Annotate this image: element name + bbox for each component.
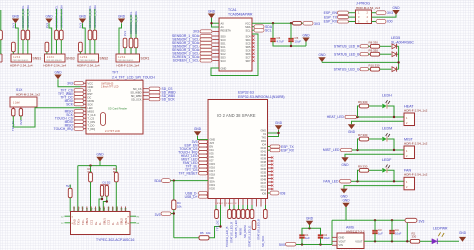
svg-text:T_CLK: T_CLK — [88, 113, 96, 117]
node SD_WB0 — [162, 94, 176, 98]
pin — [268, 160, 272, 162]
wire — [103, 196, 107, 211]
label R4 10k — [177, 201, 182, 208]
svg-text:R6 330: R6 330 — [358, 100, 368, 104]
node STATUS_LED_G — [334, 67, 360, 71]
no-connect — [271, 188, 273, 190]
pin name D+ — [115, 221, 119, 225]
svg-text:GND: GND — [392, 6, 400, 10]
svg-text:SD7: SD7 — [245, 59, 251, 63]
pin number A6 — [99, 207, 102, 211]
node 5V0 — [279, 243, 285, 247]
no-connect — [252, 39, 254, 41]
wire — [229, 205, 231, 210]
pin 2 — [367, 11, 369, 15]
pin name CS — [88, 88, 92, 92]
capacitor C5 — [288, 39, 293, 41]
pin 4 — [367, 15, 369, 19]
label flag TOUCH_CS — [199, 147, 208, 150]
svg-text:T_DO: T_DO — [88, 123, 95, 127]
pin name GND — [221, 66, 227, 70]
node SNS1 — [33, 57, 42, 61]
pin — [247, 199, 249, 206]
pin — [213, 30, 220, 32]
svg-text:RESETA: RESETA — [221, 29, 231, 33]
svg-text:HDR-F-2.54_1x4: HDR-F-2.54_1x4 — [77, 64, 100, 68]
junction — [173, 179, 175, 181]
pin name VOUT — [339, 239, 347, 243]
wire — [22, 9, 24, 30]
label flag 3V3 — [376, 11, 386, 15]
wire up — [358, 170, 360, 181]
label HDR-F-2.54_1x2 — [404, 141, 428, 145]
no-connect — [252, 35, 254, 37]
label flag IO0 — [376, 20, 386, 24]
wire — [94, 40, 96, 54]
pin name SD2 — [221, 48, 227, 52]
wire — [215, 205, 217, 210]
wire — [369, 53, 371, 55]
node ESP_EN — [324, 11, 338, 15]
pin T_DIN — [81, 121, 87, 123]
pin — [103, 207, 105, 212]
wire input top rail — [302, 228, 321, 235]
no-connect — [271, 160, 273, 162]
pin — [215, 199, 217, 206]
svg-text:GND: GND — [342, 199, 350, 203]
svg-text:SDA: SDA — [245, 25, 251, 29]
svg-text:4.7uF: 4.7uF — [277, 40, 285, 44]
pin name SC1 — [221, 45, 227, 49]
pin — [116, 207, 118, 212]
label flag SD_WBD — [149, 91, 160, 94]
label R9 — [358, 164, 368, 168]
wire — [380, 68, 392, 70]
label flag SD_SCK — [149, 98, 160, 101]
label TCA9548APWR — [228, 13, 253, 17]
IC TFT module body — [86, 80, 143, 134]
label flag MISO — [74, 124, 84, 127]
ground pwr — [459, 237, 466, 242]
capacitor C4 — [389, 231, 394, 233]
svg-text:3V3: 3V3 — [419, 220, 425, 224]
svg-text:SD Card Reader: SD Card Reader — [108, 107, 127, 111]
label flag STATUS_LED_B — [360, 53, 369, 56]
node TOUCH_LED_B — [225, 227, 229, 247]
svg-text:USB_D+: USB_D+ — [185, 195, 198, 199]
label flag SENSOR_2_SCL — [200, 45, 212, 48]
svg-text:SC6: SC6 — [245, 48, 251, 52]
pin — [120, 207, 122, 212]
pin name GND — [72, 219, 76, 225]
label flag HEAT_LED — [199, 154, 208, 157]
junction — [89, 164, 91, 166]
label flag 3V3 — [74, 82, 84, 85]
svg-text:B12: B12 — [108, 206, 111, 211]
resistor R7 — [359, 137, 368, 141]
svg-text:3V3: 3V3 — [79, 23, 83, 29]
svg-text:SCL: SCL — [245, 29, 251, 33]
capacitor C3 — [372, 231, 377, 233]
wire — [69, 198, 71, 212]
label R10 330 — [369, 64, 380, 68]
pin SD_SCK — [143, 98, 149, 100]
wire — [369, 105, 382, 107]
resistor SNS1a — [21, 30, 25, 40]
wire pin1 — [358, 116, 405, 118]
svg-text:TOUCH_LED_B: TOUCH_LED_B — [225, 227, 229, 247]
label HEAT — [404, 104, 414, 108]
svg-text:CS: CS — [88, 88, 92, 92]
label C6 4.7uF — [277, 36, 285, 43]
pin number A9 — [86, 207, 89, 211]
node FAN_LED — [323, 180, 339, 184]
svg-text:CC2: CC2 — [107, 219, 111, 225]
svg-text:PWR GND SDA SCL: PWR GND SDA SCL — [80, 59, 96, 62]
pin name IO4 — [210, 149, 215, 152]
label flag SCK — [74, 103, 84, 106]
resistor R9 — [359, 168, 368, 172]
pin — [77, 207, 79, 212]
svg-text:T_DIN: T_DIN — [88, 120, 96, 124]
pin name IO5 — [210, 153, 215, 156]
pin name TX1- — [81, 219, 85, 225]
label flag USB_D+ — [199, 195, 208, 198]
svg-text:3V3: 3V3 — [67, 82, 73, 86]
resistor RB6 — [241, 210, 245, 219]
pin name SCL — [245, 29, 251, 33]
capacitor C1 — [299, 235, 304, 237]
pin name VCC — [245, 22, 251, 26]
wire — [391, 233, 393, 241]
label R7 — [358, 133, 368, 137]
label flag SCL — [254, 28, 264, 32]
svg-text:1uF: 1uF — [305, 236, 310, 240]
capacitor C6 — [270, 39, 275, 41]
label flag SENSOR_1_SDA — [200, 34, 212, 37]
wire — [372, 21, 377, 23]
connector MIST body — [404, 146, 415, 159]
resistor R5 — [199, 236, 209, 240]
pin name IO17 — [210, 170, 216, 173]
pin — [224, 199, 226, 206]
wire pin2 — [345, 154, 404, 157]
wire — [27, 9, 29, 30]
wire — [272, 23, 274, 39]
node TFT_RESET — [179, 172, 198, 176]
ground input caps — [306, 217, 314, 226]
node TOUCH_IRQ — [54, 127, 74, 131]
svg-text:GND: GND — [341, 163, 349, 167]
pin name RST — [88, 92, 94, 96]
svg-text:A12: A12 — [73, 206, 76, 211]
no-connect — [271, 184, 273, 186]
junction — [277, 132, 279, 134]
pin name T_DIN — [88, 120, 96, 124]
svg-text:GND: GND — [12, 14, 20, 18]
pin name SD_WB0 — [131, 94, 142, 98]
svg-text:LEDH: LEDH — [382, 94, 392, 98]
diode D2 — [105, 185, 108, 196]
ground MIST — [341, 157, 349, 167]
wire — [20, 116, 22, 120]
wire — [265, 205, 267, 210]
wire — [268, 146, 271, 148]
wire common — [398, 46, 400, 69]
pin name SD4 — [245, 38, 251, 42]
node 3V3 — [19, 119, 23, 125]
resistor R1 — [68, 188, 72, 198]
wire — [252, 22, 293, 24]
pin name D+ — [94, 221, 98, 225]
pin number B9 — [120, 207, 123, 211]
pin — [112, 207, 114, 212]
no-connect — [252, 42, 254, 44]
svg-text:GND: GND — [339, 236, 345, 240]
node SCR1 — [141, 57, 150, 61]
wire rail 5V0 — [296, 244, 332, 246]
node TOUCH_CS — [179, 147, 198, 151]
svg-text:B10: B10 — [116, 206, 119, 211]
node IO8 — [280, 191, 285, 195]
pin MISO — [81, 110, 87, 112]
node STATUS_LED_R — [334, 45, 360, 49]
svg-text:3V3: 3V3 — [387, 11, 393, 15]
svg-text:GND: GND — [348, 130, 356, 134]
label R9 330 — [369, 49, 379, 53]
label flag 3V3 oval — [405, 218, 417, 222]
svg-text:SBU1: SBU1 — [102, 218, 106, 225]
node SENSOR_2_SDA — [60, 5, 64, 28]
wire — [173, 181, 175, 200]
ground SNS3 — [45, 14, 53, 23]
svg-text:SD1: SD1 — [221, 41, 227, 45]
pin number B11 — [112, 206, 115, 211]
ground HEAT — [348, 124, 356, 134]
node MIST_LED — [323, 148, 340, 152]
svg-text:2.4 TFT LCD: 2.4 TFT LCD — [105, 129, 120, 133]
node 3V3 — [193, 30, 199, 34]
wire — [369, 169, 382, 171]
pin — [95, 207, 97, 212]
node HEAT_LED — [327, 115, 345, 119]
node SENSOR_3_SCL — [88, 5, 92, 28]
connector FAN body — [404, 177, 415, 190]
junction — [374, 240, 376, 242]
svg-text:SD6: SD6 — [245, 52, 251, 56]
junction — [290, 22, 292, 24]
node MISO — [65, 110, 74, 114]
wire — [60, 40, 62, 54]
wire up — [358, 139, 360, 150]
pin name IO42 — [261, 147, 267, 150]
wire — [69, 185, 71, 189]
svg-text:D+: D+ — [115, 221, 119, 225]
pin — [213, 39, 220, 41]
pin name IO35 — [261, 171, 267, 174]
label flag 5V0 — [286, 243, 297, 246]
svg-text:D-: D- — [98, 222, 102, 225]
label C3 1uF — [378, 228, 383, 235]
svg-text:SC2: SC2 — [221, 52, 227, 56]
wire — [388, 170, 395, 181]
svg-text:MOSI: MOSI — [88, 99, 95, 103]
pin name IO37 — [261, 164, 267, 167]
svg-text:SCREEN_1_SCL: SCREEN_1_SCL — [173, 59, 199, 63]
pin — [82, 207, 84, 212]
label flag 3V3 — [199, 140, 208, 143]
node 3V3 — [387, 11, 393, 15]
svg-text:IO0: IO0 — [387, 20, 393, 24]
svg-text:HDR-F-2.54_1x4: HDR-F-2.54_1x4 — [43, 64, 66, 68]
wire — [420, 240, 432, 242]
resistor SNS2b — [93, 30, 97, 40]
wire — [242, 205, 244, 210]
ground TCA — [208, 9, 216, 18]
pin — [268, 167, 272, 169]
pin — [265, 199, 267, 206]
svg-text:D-: D- — [111, 222, 115, 225]
node TFT_DC — [60, 96, 73, 100]
junction — [272, 22, 274, 24]
label flag TFT_WB0 — [74, 92, 84, 95]
node SENSOR_2_SDA — [172, 41, 200, 45]
resistor R14 — [252, 220, 256, 229]
connector J-PROG body — [356, 10, 372, 24]
pin name IO47 — [261, 182, 267, 185]
wire — [252, 29, 254, 31]
wire — [391, 220, 393, 231]
svg-text:R9 330: R9 330 — [358, 164, 368, 168]
wire — [77, 166, 79, 212]
svg-text:T_IRQ: T_IRQ — [88, 127, 96, 131]
pin name IO6 — [210, 156, 215, 159]
label ESP32-S3-WROOM-1(N16R8) — [238, 95, 285, 99]
svg-text:2.8inch TFT LCD: 2.8inch TFT LCD — [101, 87, 119, 89]
label flag SD_CS — [149, 87, 160, 90]
wire — [171, 180, 209, 182]
label flag TFT_RESET — [199, 172, 208, 175]
wire — [273, 41, 306, 46]
svg-text:HDR-F-2.54_1x2: HDR-F-2.54_1x2 — [404, 141, 428, 145]
svg-text:A10: A10 — [82, 206, 85, 211]
svg-text:FAN_LED: FAN_LED — [323, 180, 339, 184]
label LEDF — [382, 158, 392, 162]
label flag ESP_RX — [338, 20, 349, 23]
wire — [397, 53, 399, 55]
pin name VCC — [88, 81, 94, 85]
svg-text:D1 D2: D1 D2 — [103, 181, 111, 185]
wire — [268, 192, 271, 194]
svg-text:HEAT_LED: HEAT_LED — [327, 115, 345, 119]
pin name T_DO — [88, 123, 95, 127]
svg-text:GND: GND — [275, 121, 283, 125]
pin name EN — [210, 146, 214, 149]
label TFT1 — [112, 71, 118, 75]
wire out top rail — [332, 219, 410, 221]
wire — [268, 130, 279, 133]
pin RST — [81, 93, 87, 95]
pin — [260, 205, 262, 207]
pin — [332, 236, 337, 238]
svg-text:SNS1: SNS1 — [33, 57, 42, 61]
wire — [49, 23, 52, 54]
ground out — [342, 199, 350, 208]
wire — [388, 139, 395, 150]
wire — [94, 9, 96, 30]
label R2 5K1 — [88, 167, 93, 174]
label flag ESP_RX — [270, 149, 280, 152]
wire gnd run — [322, 61, 399, 63]
node 3V3 — [314, 22, 320, 26]
pin name RESETA — [221, 29, 231, 33]
ground J-PROG — [392, 6, 400, 15]
resistor SNS2c — [79, 42, 83, 52]
svg-text:GND: GND — [96, 153, 104, 157]
resistor RB5 — [237, 210, 241, 219]
resistor SNS1c — [12, 42, 16, 52]
svg-text:3V3: 3V3 — [155, 213, 161, 217]
svg-text:SNS3: SNS3 — [66, 57, 75, 61]
label flag TOUCH_IRQ — [199, 151, 208, 154]
svg-text:SC3: SC3 — [221, 59, 227, 63]
pin name GND — [260, 129, 266, 132]
wire — [302, 22, 304, 24]
no-connect — [252, 49, 254, 51]
pin number A8 — [90, 207, 93, 211]
label HDR-F-2.54_1x4 — [43, 64, 66, 68]
label C4 10uF — [395, 228, 402, 235]
pin name DC — [88, 95, 92, 99]
svg-text:10uF: 10uF — [295, 40, 302, 44]
svg-text:GND: GND — [302, 33, 310, 37]
label flag FAN_LED — [340, 180, 352, 183]
resistor RB3 — [228, 210, 232, 219]
pin name SBU2 — [120, 218, 124, 225]
node SCREEN_1_SCL — [129, 11, 133, 34]
pin name VIN — [339, 243, 343, 247]
node USB_D- — [185, 192, 197, 196]
node MIST_LED — [181, 158, 198, 162]
no-connect — [271, 170, 273, 172]
LED LEDM — [382, 133, 390, 141]
node TOUCH_IRQ — [178, 151, 198, 155]
svg-text:1 2 3 4: 1 2 3 4 — [118, 57, 126, 59]
svg-text:GND: GND — [118, 14, 126, 18]
svg-text:IO8: IO8 — [262, 192, 267, 195]
wire — [212, 22, 220, 24]
svg-text:TFT: TFT — [112, 71, 118, 75]
node TFT_DC — [216, 220, 220, 231]
ground cap rail — [302, 33, 310, 42]
resistor R10 — [370, 67, 379, 71]
pin name IO40 — [261, 154, 267, 157]
resistor SNS1b — [26, 30, 30, 40]
pin number B10 — [116, 206, 119, 211]
label AMS — [346, 226, 355, 230]
pin number A12 — [73, 206, 76, 211]
label flag 3V3 — [161, 212, 171, 215]
svg-text:1uF: 1uF — [378, 231, 383, 235]
pin name SC7 — [245, 55, 251, 59]
pin — [224, 205, 226, 207]
connector SNS1 HDR-F-2.54_1x4 — [11, 54, 32, 62]
pin SD_WBD — [143, 91, 149, 93]
wire bar — [100, 184, 108, 186]
svg-text:STATUS_LED_G: STATUS_LED_G — [248, 226, 252, 247]
label inner — [101, 84, 119, 89]
IC U-TCA1 TCA9548APWR body — [219, 18, 252, 71]
